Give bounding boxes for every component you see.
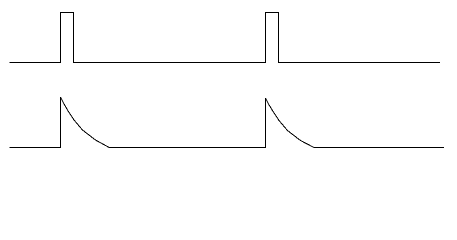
top trace: rectangular input pulse train waveform (pulse 1 cols 60-73, pulse 2 cols 265-278, baseline row 62, pulse top row 12) [10, 13, 441, 63]
bottom trace: exponential-decay output spike waveform (spike 1 rises at col 60 to peak row 97, spike 2 at col 265, decaying to baseline row 147) [10, 97, 445, 148]
